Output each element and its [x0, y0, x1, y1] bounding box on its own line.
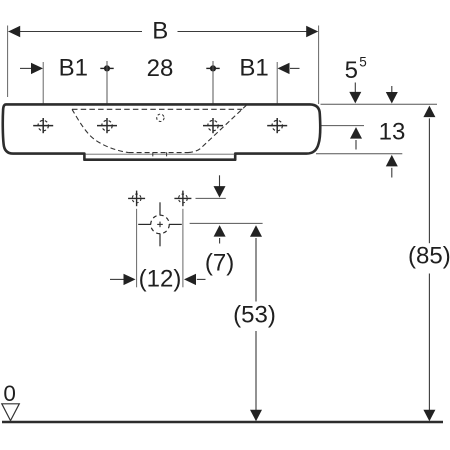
fixing hole left — [128, 191, 145, 207]
extension line fixing hole left — [136, 209, 138, 287]
svg-text:5: 5 — [345, 57, 358, 84]
svg-text:(12): (12) — [139, 265, 182, 292]
svg-text:B1: B1 — [239, 55, 268, 82]
dimension 12 right arrow — [184, 274, 206, 285]
reference line basin bottom right — [316, 153, 402, 155]
dimension B line — [9, 31, 318, 33]
tap hole 1 — [33, 118, 53, 133]
extension line fixing hole right — [182, 209, 184, 287]
dimension 7 down arrow — [214, 175, 226, 197]
svg-text:B: B — [152, 18, 168, 45]
dimension B1 left arrow — [20, 63, 43, 74]
basin outline — [3, 104, 321, 159]
dimension 85 line — [423, 106, 435, 422]
svg-text:(53): (53) — [233, 302, 276, 329]
waste hole dashed circle — [138, 202, 182, 246]
tap hole 2 — [97, 118, 117, 133]
dimension B left arrowhead — [8, 26, 20, 37]
dimension B right arrowhead — [306, 26, 318, 37]
reference line basin top right — [321, 103, 438, 105]
svg-text:5: 5 — [359, 55, 367, 70]
floor line — [2, 421, 443, 424]
dimension 13 top arrow — [350, 127, 362, 149]
extension line tap hole 4 — [276, 62, 278, 114]
basin bowl dashed left curve — [72, 109, 129, 152]
dimension 7 top reference line — [196, 197, 226, 199]
svg-text:28: 28 — [147, 55, 174, 82]
extension line basin left edge — [7, 26, 9, 98]
overflow dashed circle — [157, 114, 164, 121]
dimension B1 right arrow — [278, 63, 300, 74]
basin lip top line — [86, 153, 235, 155]
reference line tap hole axis right — [287, 125, 364, 127]
dimension 12 left arrow — [110, 274, 136, 285]
basin bowl dashed right diagonal — [188, 105, 246, 152]
extension line basin right edge — [318, 26, 320, 105]
dimension 5^5 arrow 2 — [386, 86, 398, 104]
svg-text:13: 13 — [379, 118, 406, 145]
svg-text:B1: B1 — [59, 55, 88, 82]
svg-text:0: 0 — [3, 381, 16, 406]
fixing hole right — [174, 191, 191, 207]
svg-text:(85): (85) — [408, 243, 450, 270]
dimension 7 up arrow — [214, 225, 226, 243]
dimension 7 bottom reference line — [190, 222, 263, 224]
node dot tap hole 3 — [206, 61, 219, 114]
dimension 5^5 arrow 1 — [349, 83, 361, 104]
basin rim dashed line — [72, 108, 242, 110]
svg-text:(7): (7) — [205, 250, 234, 277]
tap hole 4 — [267, 118, 287, 133]
datum triangle — [2, 404, 20, 421]
basin bowl dashed bottom — [129, 152, 188, 154]
dimension 13 bottom arrow — [386, 155, 398, 178]
drain recess — [153, 152, 167, 156]
node dot tap hole 2 — [100, 61, 113, 114]
extension line tap hole 1 — [42, 62, 44, 114]
tap hole 3 — [203, 118, 223, 133]
dimension 53 line — [250, 225, 262, 421]
